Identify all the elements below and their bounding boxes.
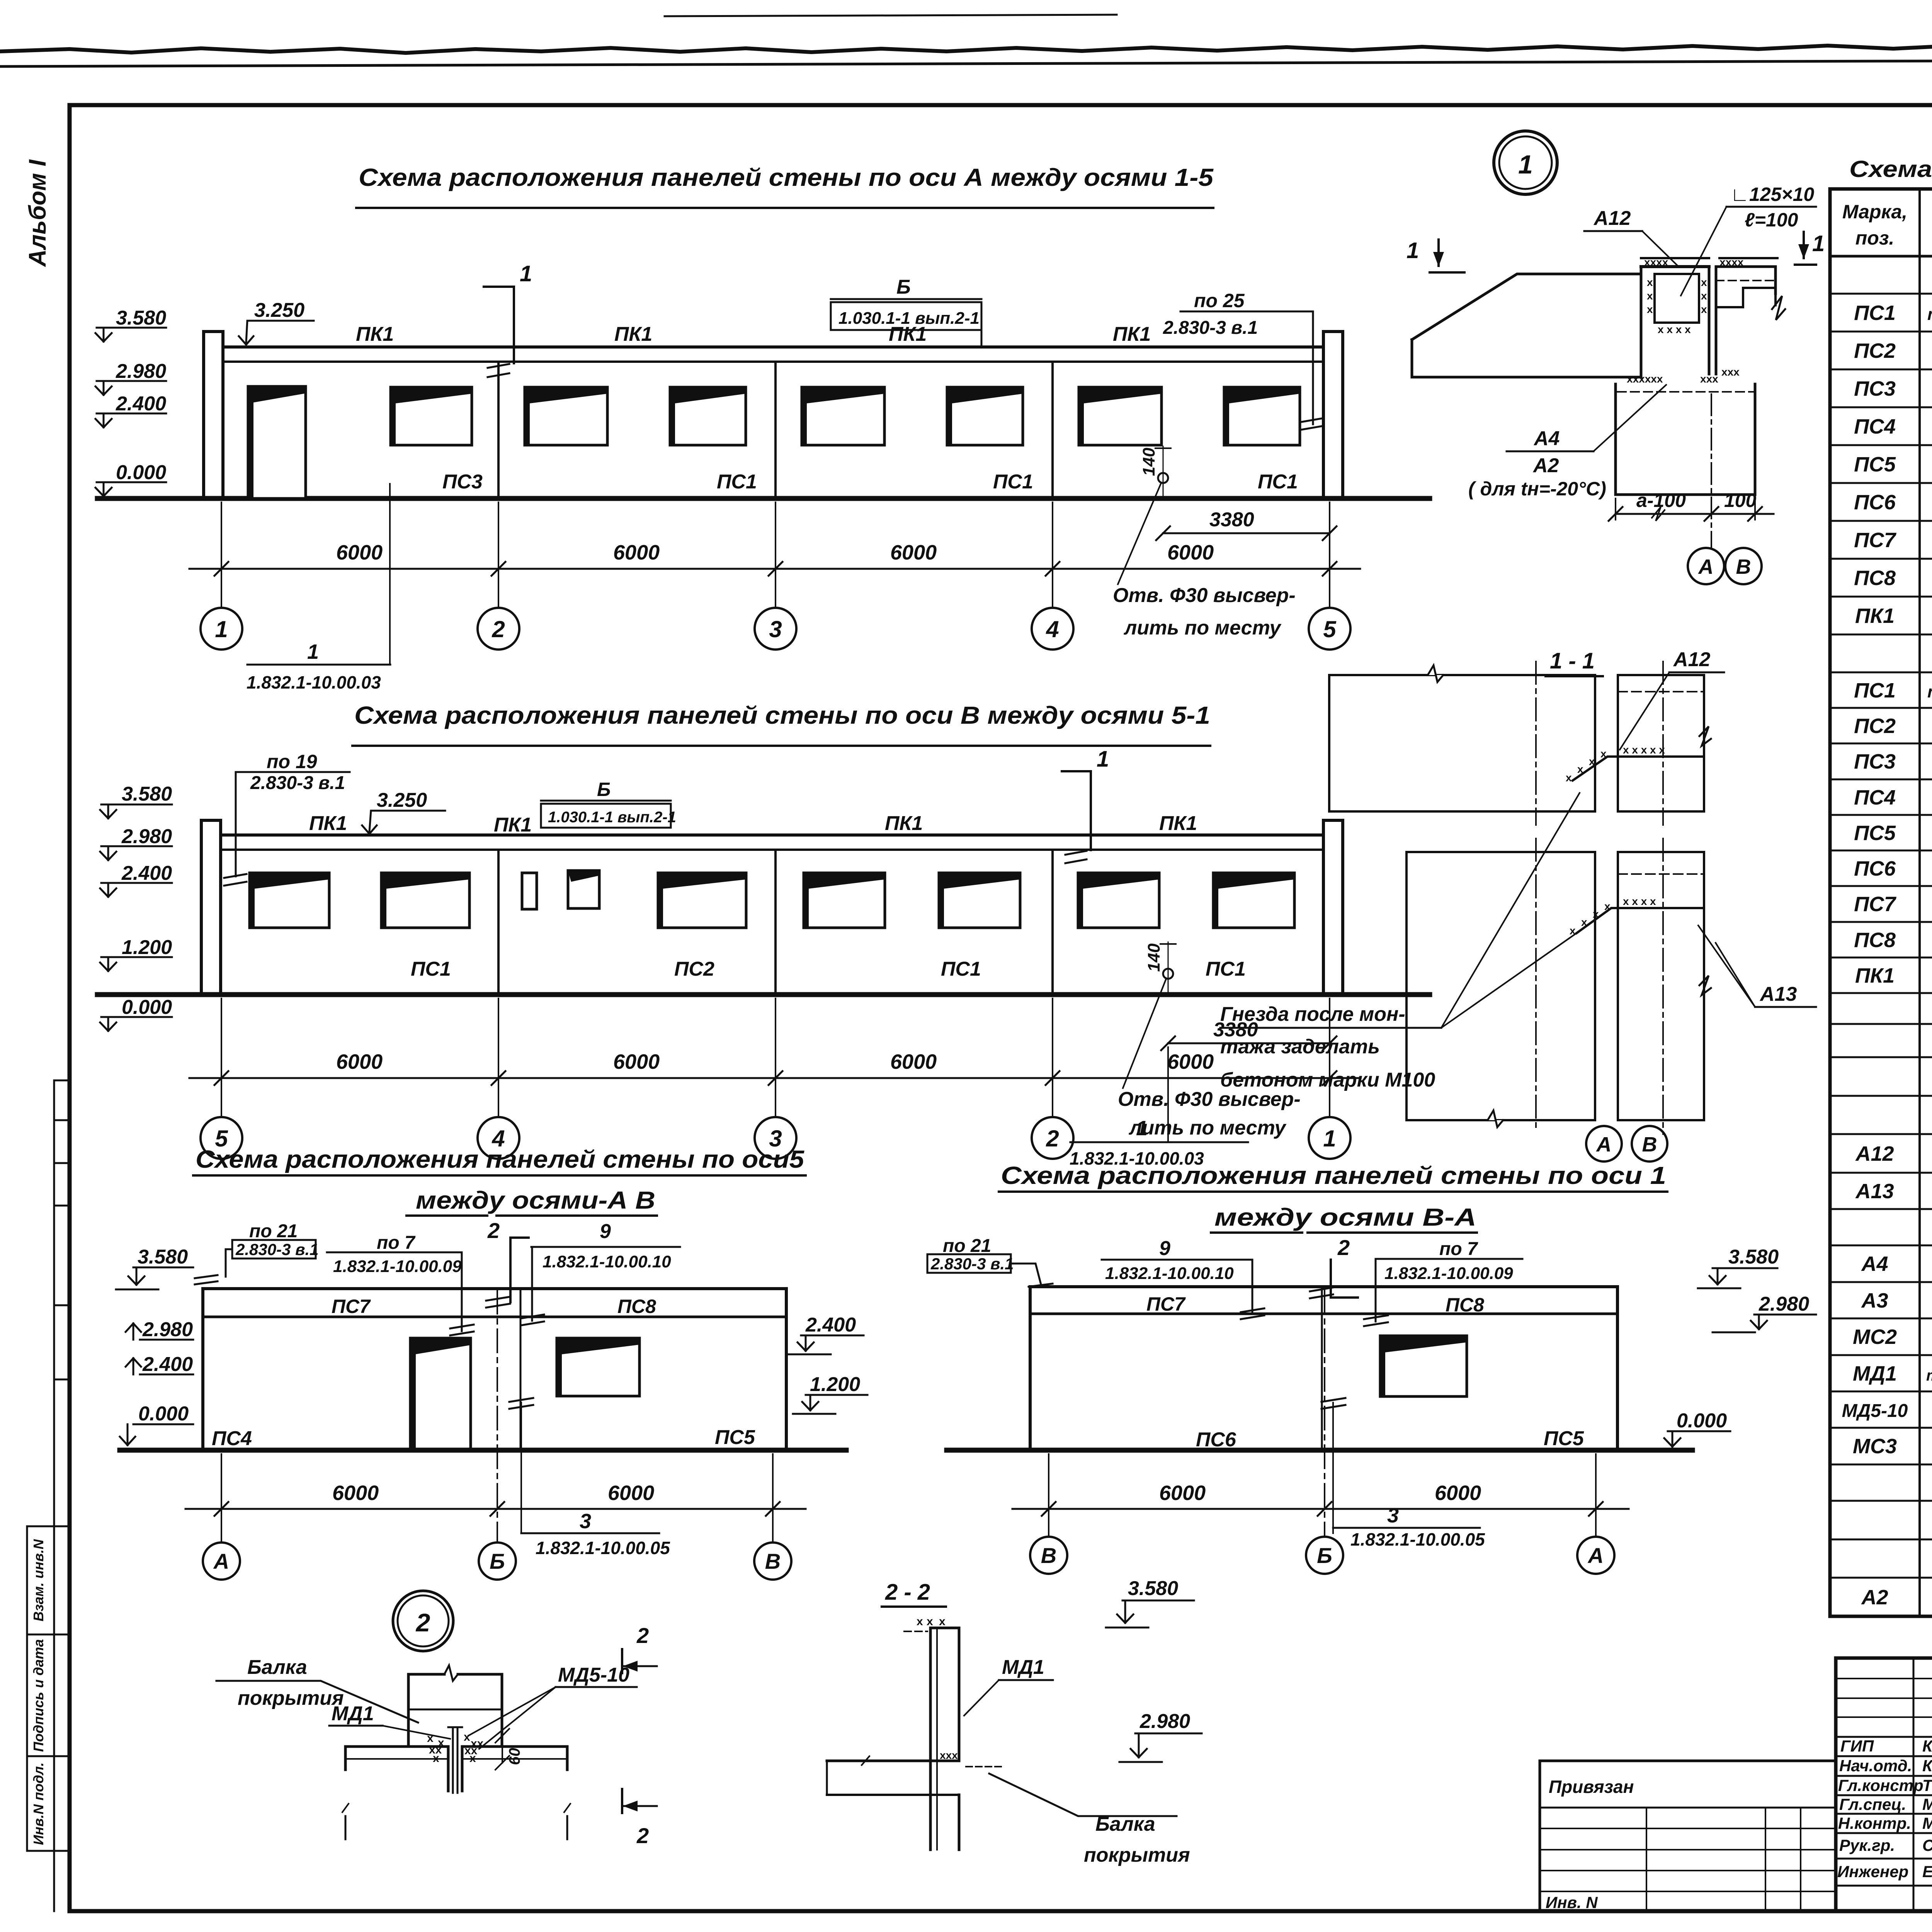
svg-text:ПС5: ПС5 [1544,1427,1584,1450]
svg-text:3.580: 3.580 [122,783,172,805]
section 2-2 title [882,1580,946,1607]
label angle 125x10 node 1 [1681,184,1816,296]
label po 21 elevation 3 [195,1221,319,1284]
svg-text:по 7: по 7 [377,1233,416,1253]
svg-text:6000: 6000 [332,1481,379,1505]
privyazan box [1540,1761,1836,1911]
top horizontal rule [0,59,1932,66]
svg-text:А12: А12 [1855,1142,1894,1165]
svg-text:ПС1: ПС1 [411,958,451,980]
svg-text:0.000: 0.000 [122,996,172,1019]
svg-text:ПС4: ПС4 [1854,786,1896,809]
svg-text:А4: А4 [1533,427,1560,450]
svg-text:x: x [433,1752,439,1765]
svg-text:2: 2 [487,1218,500,1243]
svg-text:3.580: 3.580 [1128,1577,1178,1600]
svg-text:x: x [927,1615,933,1628]
svg-text:3380: 3380 [1209,509,1254,531]
svg-text:2.980: 2.980 [142,1318,193,1341]
svg-text:6000: 6000 [336,541,383,564]
hole detail Otv F30 elevation 2 [1118,942,1301,1139]
svg-text:2.980: 2.980 [1759,1293,1809,1315]
svg-text:ПК1: ПК1 [1113,323,1151,345]
beam box node 2 [408,1665,502,1747]
svg-text:А12: А12 [1673,648,1710,671]
svg-text:МС3: МС3 [1853,1435,1897,1458]
svg-text:2: 2 [492,616,505,642]
roof slab section 2-2 [827,1756,959,1795]
svg-text:МС2: МС2 [1853,1325,1897,1349]
label B box elevation 2 [541,779,676,828]
weld marks at slab joint section 2-2 [940,1749,958,1761]
svg-text:140: 140 [1145,943,1163,972]
window 4-2 [1224,387,1300,445]
window A-2 elevation 2 [381,873,469,928]
svg-text:А3: А3 [1861,1289,1888,1312]
svg-text:1.030.1-1 вып.2-1: 1.030.1-1 вып.2-1 [838,309,980,328]
svg-text:МД1: МД1 [1002,1656,1044,1679]
svg-text:Марка,: Марка, [1842,201,1907,223]
wall band elevation 2 [221,835,1323,995]
right level mark 1.200 el3 [793,1373,867,1414]
schedule row 28: А3 [1861,1289,1932,1312]
svg-text:А: А [1698,555,1714,578]
svg-text:ПС5: ПС5 [1854,453,1896,476]
main dimension line elevation 2 [189,998,1360,1117]
svg-text:тажа заделать: тажа заделать [1220,1036,1380,1058]
svg-text:1.832.1-10.00.03: 1.832.1-10.00.03 [247,672,381,692]
svg-text:по 7: по 7 [1439,1239,1478,1259]
svg-text:x: x [1581,916,1587,928]
label po 7 elevation 3 [327,1233,474,1335]
window elevation 4 [1380,1336,1467,1396]
3380 dimension elevation 2 [1161,1019,1337,1050]
svg-text:Взам. инв.N: Взам. инв.N [31,1539,46,1622]
window D-1 elevation 2 [1078,873,1159,928]
svg-text:Отв. Ф30 высвер-: Отв. Ф30 высвер- [1113,584,1296,607]
wall elevation 4 [1030,1287,1617,1450]
window B-2 elevation 2 [658,873,746,928]
svg-text:9: 9 [1159,1237,1170,1260]
svg-text:МД1: МД1 [1853,1362,1897,1385]
window elevation 3 [557,1338,639,1396]
svg-text:поз.: поз. [1855,227,1895,249]
window 4-1 [1079,387,1162,445]
svg-text:xxxx: xxxx [1719,256,1744,268]
weld x marks node 2 [427,1731,484,1765]
svg-text:Инв. N: Инв. N [1546,1893,1598,1912]
svg-text:x: x [1647,290,1653,302]
level mark 2.980 section 2-2 [1119,1710,1202,1762]
svg-text:Марков: Марков [1922,1795,1932,1813]
svg-text:2.400: 2.400 [142,1353,193,1376]
schedule row 2: ПС2 [1854,339,1932,362]
right level mark 2.980 el4 [1713,1293,1816,1332]
svg-text:1: 1 [1406,238,1419,263]
svg-text:Балка: Балка [247,1656,307,1679]
hole detail Otv F30 elevation 1 [1113,446,1296,639]
window 1-2 [391,387,472,445]
label A13 section 1-1 [1698,925,1816,1007]
svg-text:1: 1 [1097,747,1109,772]
svg-text:ПС1: ПС1 [1258,471,1298,493]
svg-text:9: 9 [600,1220,611,1243]
schedule row 5: ПС5 [1854,453,1932,476]
svg-text:ПС7: ПС7 [1146,1293,1186,1315]
level mark 3.580 el2 [100,783,172,818]
svg-text:по 21: по 21 [249,1221,298,1242]
axis circles A B section 1-1 [1586,1126,1667,1162]
svg-text:4: 4 [1046,616,1059,642]
level mark 3.580 el3 [116,1246,193,1289]
pilaster at axis 1 right [1323,820,1343,995]
label po 25 elevation 1 [1163,290,1324,430]
svg-text:ПС7: ПС7 [1854,893,1897,916]
ground line elevation 4 [947,1448,1692,1453]
svg-text:ПС3: ПС3 [1854,750,1896,773]
level mark 0.000 el3 [120,1403,193,1445]
svg-text:Б: Б [597,779,611,800]
upper right wall panel section 1-1 [1618,675,1711,811]
svg-text:2.400: 2.400 [805,1314,856,1336]
left binding column cells [27,1080,70,1911]
svg-text:Отв. Ф30 высвер-: Отв. Ф30 высвер- [1118,1088,1301,1111]
level mark 2.400 el3 (up arrow) [126,1353,193,1376]
window D-2 elevation 2 [1213,873,1294,928]
svg-text:а-100: а-100 [1636,490,1686,511]
roof beam node 1 [1412,274,1641,377]
lower tie plate section 1-1 [1570,895,1704,937]
svg-text:ПС3: ПС3 [442,471,483,493]
svg-text:ПС2: ПС2 [1854,339,1896,362]
svg-text:Теляковский: Теляковский [1922,1776,1932,1794]
schedule row 27: А4 [1861,1249,1932,1283]
svg-text:А4: А4 [1861,1252,1888,1276]
svg-text:Привязан: Привязан [1549,1777,1634,1797]
svg-text:ПС6: ПС6 [1854,491,1896,514]
window A-1 elevation 2 [250,873,329,928]
svg-text:xxx: xxx [1721,366,1740,378]
svg-text:x: x [1604,900,1611,912]
label MD5-10 node 2 [468,1664,637,1749]
axis lines elevation 4 [1049,1291,1596,1537]
section 1-1 title [1546,648,1603,676]
svg-text:1: 1 [520,261,532,286]
svg-text:В: В [1736,555,1751,578]
svg-text:2.830-3 в.1: 2.830-3 в.1 [930,1255,1014,1273]
lower right wall panel section 1-1 [1618,852,1711,1120]
door elevation 3 [410,1338,471,1450]
wall band (PK1 strip) elevation 1 [223,347,1323,498]
schedule table header [1842,201,1932,249]
lower wall panel node 1 [1616,384,1755,495]
level mark 2.980 [95,360,166,395]
svg-text:x: x [427,1732,434,1745]
svg-text:А13: А13 [1759,983,1797,1005]
schedule row 9: ПК1 [1855,604,1932,628]
wall elevation 3 [203,1289,786,1450]
svg-text:2: 2 [636,1623,649,1648]
label Balka pokrytiya node 2 [216,1656,418,1723]
svg-text:x: x [1577,763,1583,775]
angle plate top node 1 [1641,257,1777,259]
window 2-2 [670,387,746,445]
svg-text:МД1: МД1 [332,1702,374,1725]
svg-text:1: 1 [1812,231,1825,256]
label A4 A2 node 1 [1468,385,1666,500]
level mark 0.000 el2 [100,996,172,1031]
60 dimension node 2 [495,1729,523,1770]
svg-text:6000: 6000 [613,541,660,564]
section mark 1 left (node 1) [1406,238,1464,272]
svg-text:1.832.1-10.00.10: 1.832.1-10.00.10 [543,1252,671,1271]
svg-text:В: В [1041,1543,1056,1568]
svg-text:т.п.: т.п. [1927,682,1932,701]
svg-text:∟125×10: ∟125×10 [1730,184,1814,205]
narrow slit window elevation 2 [522,873,537,909]
right level mark 0.000 el4 [1664,1410,1730,1447]
wall panels under beam node 2 [342,1747,570,1839]
svg-text:Скобликов: Скобликов [1922,1836,1932,1854]
schedule row 19: ПК1 [1855,964,1932,987]
level mark 2.400 [95,393,166,427]
axis circles A B node 1 [1688,548,1762,584]
svg-text:В: В [1642,1133,1657,1156]
svg-text:6000: 6000 [1167,541,1214,564]
svg-text:бетоном марки М100: бетоном марки М100 [1220,1069,1435,1091]
section mark 2 lower (node 2) [622,1789,657,1848]
svg-text:6000: 6000 [613,1050,660,1073]
level mark 2.980 el3 (up arrow) [126,1318,193,1341]
signature column labels [1837,1737,1932,1881]
svg-text:x x x x: x x x x [1623,895,1656,907]
svg-text:2.830-3 в.1: 2.830-3 в.1 [235,1240,319,1259]
schedule row 8: ПС8 [1854,566,1932,590]
axis circles elevation 1 [201,608,1350,650]
small window elevation 2 [568,871,599,908]
level mark 2.980 el2 [100,825,172,860]
dimension line elevation 3 [185,1502,806,1516]
svg-text:ПС3: ПС3 [1854,377,1896,400]
svg-text:1: 1 [307,640,319,663]
schedule row 12: ПС2 [1854,714,1932,738]
svg-text:xxxx: xxxx [1644,256,1668,268]
node 2 bubble [393,1591,453,1651]
svg-text:3.580: 3.580 [1728,1246,1779,1268]
svg-text:лить по месту: лить по месту [1123,617,1282,639]
svg-text:А: А [213,1549,229,1573]
level mark 2.400 el2 [100,862,172,897]
panel joint elevation 4 [1321,1287,1323,1450]
svg-text:x: x [917,1615,923,1628]
svg-text:ПС2: ПС2 [1854,714,1896,738]
svg-text:по 25: по 25 [1194,290,1245,311]
right level mark 3.580 el4 [1698,1246,1779,1288]
section mark 2 elevation 4 [1310,1235,1358,1298]
axis circles elevation 3 [203,1543,791,1580]
svg-text:x: x [1600,748,1607,760]
label B box elevation 1 [831,276,981,346]
3.250 level note el2 [362,789,445,834]
svg-text:Схема расположения панелей сте: Схема расположения панелей стены по оси … [359,163,1214,191]
axis line node 1 [1711,394,1712,548]
svg-text:x: x [1701,276,1707,288]
schedule row 1: ПС1 [1854,301,1932,325]
svg-text:x: x [1589,755,1595,767]
svg-text:2.980: 2.980 [121,825,172,848]
svg-text:x: x [939,1615,946,1628]
svg-text:МД5-10: МД5-10 [558,1664,629,1686]
svg-text:Ермакова: Ермакова [1922,1862,1932,1881]
panel joints elevation 2 [498,850,1053,995]
svg-text:Схема расположения панелей сте: Схема расположения панелей стены по оси5 [196,1145,805,1173]
svg-text:x: x [469,1752,476,1765]
svg-text:3.580: 3.580 [116,307,166,329]
3.250 level note [239,299,314,345]
pilaster at axis 5 left [201,820,221,995]
svg-text:1.200: 1.200 [122,936,172,959]
label 9 elevation 3 [521,1220,680,1325]
svg-text:ПС1: ПС1 [993,471,1033,493]
label A12 node 1 [1584,207,1677,265]
svg-text:ПС8: ПС8 [617,1296,656,1317]
label MD1 node 2 [329,1702,450,1739]
svg-text:А2: А2 [1532,454,1559,477]
svg-text:ПК1: ПК1 [1159,812,1197,835]
section mark 1 elevation 2 [1062,747,1109,863]
MD1 plate in joint node 2 [448,1727,462,1793]
window 3-1 [802,387,884,445]
svg-text:Марков: Марков [1922,1814,1932,1832]
svg-text:6000: 6000 [1435,1481,1481,1505]
svg-text:Б: Б [1317,1543,1332,1568]
top scan torn edge wavy line [0,43,1932,53]
upper left wall panel section 1-1 [1329,665,1595,811]
svg-text:ПК1: ПК1 [1855,604,1895,628]
svg-text:ГИП: ГИП [1840,1737,1874,1755]
svg-text:3.250: 3.250 [254,299,304,321]
section mark 2 upper (node 2) [622,1623,657,1673]
svg-text:Схема расположения панелей сте: Схема расположения панелей стены по оси … [354,701,1210,729]
svg-text:0.000: 0.000 [138,1403,189,1425]
window 2-1 [525,387,607,445]
svg-text:2: 2 [415,1608,430,1637]
svg-text:140: 140 [1139,447,1158,476]
svg-text:т.п.: т.п. [1927,305,1932,324]
svg-text:А12: А12 [1593,207,1631,230]
svg-text:Клейн: Клейн [1922,1737,1932,1755]
wall panel head node 1 [1641,267,1785,377]
schedule row 17: ПС7 [1854,893,1932,916]
svg-text:1.200: 1.200 [810,1373,860,1396]
svg-text:2: 2 [636,1823,649,1848]
svg-text:6000: 6000 [890,541,937,564]
svg-text:Нач.отд.: Нач.отд. [1839,1757,1912,1775]
section mark 1 at axis 2 top [484,261,532,377]
svg-text:А2: А2 [1861,1586,1888,1609]
level mark 1.200 el2 [100,936,172,971]
window 3-2 [947,387,1023,445]
reference 3 / 1.832.1-10.00.05 elevation 4 [1321,1398,1485,1549]
svg-text:x: x [1647,303,1653,315]
right level mark 2.400 el3 [788,1314,864,1354]
svg-text:Схема расположения панелей сте: Схема расположения панелей стены по оси … [1001,1162,1666,1189]
3380 dimension elevation 1 [1156,509,1337,540]
label Balka pokrytiya section 2-2 [989,1774,1190,1866]
svg-text:60: 60 [506,1748,523,1765]
svg-text:3.580: 3.580 [138,1246,188,1268]
svg-text:1.832.1-10.00.05: 1.832.1-10.00.05 [536,1538,670,1558]
svg-text:ПК1: ПК1 [309,812,347,835]
level mark 3.580 [95,307,166,342]
svg-text:Н.контр.: Н.контр. [1838,1814,1911,1832]
schedule row 11: ПС1 [1854,679,1932,702]
svg-text:2: 2 [1337,1235,1350,1260]
node 1 bubble [1494,131,1557,194]
reference 1 / 1.832.1-10.00.03 elevation 1 [247,484,390,692]
svg-text:ПК1: ПК1 [1855,964,1895,987]
section mark 1 right (node 1) [1795,231,1825,265]
dashed joint lines upper section 1-1 [1618,691,1704,692]
level mark 0.000 [95,461,166,496]
svg-text:1.832.1-10.00.10: 1.832.1-10.00.10 [1105,1264,1234,1283]
svg-text:1.832.1-10.00.05: 1.832.1-10.00.05 [1350,1529,1485,1549]
svg-text:ПС6: ПС6 [1854,857,1896,880]
svg-text:x: x [1566,772,1572,784]
svg-text:x: x [1701,303,1707,315]
svg-text:0.000: 0.000 [1677,1410,1727,1432]
svg-text:ПК1: ПК1 [614,323,652,345]
svg-text:6000: 6000 [608,1481,654,1505]
label A12 section 1-1 [1620,648,1724,750]
svg-text:1.832.1-10.00.09: 1.832.1-10.00.09 [1384,1264,1513,1283]
upper tie plate section 1-1 [1566,744,1704,784]
level mark 3.580 section 2-2 [1106,1577,1194,1628]
weld marks top section 2-2 [917,1615,946,1628]
svg-text:т.п.: т.п. [1926,1367,1932,1384]
weld x marks node 1 top [1644,256,1744,335]
schedule row 30: МД1 [1853,1362,1932,1385]
svg-text:2.980: 2.980 [1139,1710,1190,1733]
schedule row 13: ПС3 [1854,750,1932,773]
svg-text:3: 3 [580,1510,591,1533]
main dimension line elevation 1 [189,502,1360,608]
svg-text:покрытия: покрытия [238,1687,344,1709]
svg-text:ПС4: ПС4 [1854,415,1896,438]
svg-text:xxx: xxx [1700,373,1718,385]
svg-text:1: 1 [1323,1126,1336,1151]
svg-text:x x x x x: x x x x x [1623,744,1665,756]
reference 1 / 1.832.1-10.00.03 elevation 2 [1070,1047,1248,1168]
schedule row 15: ПС5 [1854,821,1932,845]
panel joint elevation 3 [520,1289,522,1450]
svg-text:А: А [1596,1133,1612,1156]
svg-text:2.830-3 в.1: 2.830-3 в.1 [1163,318,1258,338]
svg-text:6000: 6000 [336,1050,383,1073]
window C-2 elevation 2 [939,873,1020,928]
axis circles elevation 4 [1030,1537,1614,1574]
label 9 elevation 4 [1102,1237,1264,1319]
window C-1 elevation 2 [804,873,885,928]
svg-text:ПС7: ПС7 [1854,529,1897,552]
schedule row 18: ПС8 [1854,929,1932,952]
svg-text:Ким: Ким [1922,1757,1932,1775]
door opening bay 1 [248,386,306,498]
svg-text:между осями-А В: между осями-А В [416,1186,655,1214]
svg-text:3: 3 [1387,1504,1399,1527]
svg-text:5: 5 [1323,616,1337,642]
svg-text:Б: Б [490,1549,505,1573]
